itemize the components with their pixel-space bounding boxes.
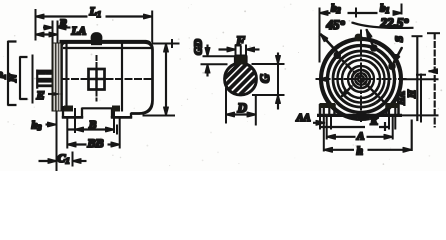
- dimension GD extension lines: [201, 56, 236, 64]
- svg-text:A: A: [356, 131, 364, 143]
- circle r14: [348, 66, 374, 92]
- left foot dark junction: [65, 106, 73, 111]
- terminal box: [89, 69, 105, 90]
- right stack: center height ext: [403, 78, 438, 80]
- key (filled): [235, 56, 247, 64]
- svg-text:F: F: [235, 34, 245, 49]
- bolt hole 67.5 deg: [389, 64, 394, 69]
- box centerline vertical dashes: [96, 56, 98, 102]
- dimension A line: [327, 136, 355, 138]
- dimension D extension lines: [226, 88, 256, 125]
- right foot hole line: [113, 109, 115, 118]
- dimension G line: [277, 53, 279, 64]
- right stack: arrow on outer line: [429, 70, 437, 72]
- svg-text:B: B: [88, 119, 96, 131]
- hub circle r5.8: [355, 73, 367, 85]
- left foot front: [320, 105, 335, 116]
- svg-text:K: K: [370, 117, 379, 128]
- svg-text:GD: GD: [193, 39, 205, 55]
- centerline vertical: [360, 30, 362, 124]
- svg-text:45°: 45°: [326, 17, 346, 32]
- right stack: baseline ext: [402, 114, 439, 116]
- left foot: [63, 107, 82, 118]
- dimension b2 b1 center tick: [355, 8, 357, 17]
- centerline horizontal: [316, 78, 406, 80]
- shaft hatching: [215, 53, 269, 112]
- svg-text:HA: HA: [398, 91, 408, 106]
- dimension L1 extension line left (shaft end): [35, 10, 37, 41]
- eyebolt on top: [91, 33, 102, 45]
- svg-text:C1: C1: [58, 151, 70, 166]
- dimension BB line: [67, 144, 86, 146]
- AA leader line: [314, 122, 325, 124]
- dimension R extension lines: [53, 21, 58, 43]
- svg-text:b1: b1: [380, 3, 390, 16]
- extension lines under feet: [67, 118, 119, 149]
- svg-text:S: S: [394, 36, 406, 42]
- end shield dark band: [52, 43, 61, 111]
- shaft: [37, 70, 52, 74]
- outer frame circle: [321, 39, 401, 119]
- circle r19: [342, 60, 380, 98]
- right foot: [112, 108, 131, 117]
- svg-text:22.5°: 22.5°: [380, 15, 410, 30]
- shaft end face: [36, 70, 38, 88]
- end shield inner ring line: [66, 44, 68, 111]
- bolt hole 22.5 deg: [371, 45, 376, 50]
- svg-text:H: H: [407, 89, 418, 99]
- shaft section center tick: [240, 47, 242, 56]
- right stack: HA tick line: [417, 74, 426, 122]
- dimension D line: [226, 114, 256, 116]
- right stack: H dim line: [416, 36, 418, 121]
- circle r28: [333, 51, 389, 107]
- circle r23.5: [338, 56, 385, 103]
- svg-text:L1: L1: [89, 4, 102, 19]
- dimension LA line: [36, 34, 58, 36]
- top knob (eyebolt end): [355, 34, 362, 41]
- third bracket line: [32, 55, 34, 103]
- svg-text:h: h: [357, 146, 363, 158]
- dimension K line: [320, 126, 388, 128]
- svg-text:E: E: [36, 88, 45, 102]
- centerline diagonal 45: [335, 53, 388, 106]
- shaft circle r3: [358, 76, 364, 82]
- scan speckle noise: [3, 3, 442, 166]
- dimension N bracket: [20, 57, 27, 99]
- dimension L1 line: [36, 16, 88, 18]
- svg-text:N: N: [7, 73, 19, 83]
- terminal box cross: [89, 69, 105, 90]
- dimension b2 b1 right tick: [401, 4, 403, 14]
- dimension F line: [219, 49, 236, 51]
- svg-text:h3: h3: [32, 120, 42, 133]
- right stack: outer h line: [434, 33, 436, 127]
- dimension h bottom line: [324, 149, 354, 151]
- right unlabeled dimension line: [165, 44, 167, 116]
- svg-text:D: D: [237, 100, 248, 115]
- dimension GD arrow lines: [207, 45, 209, 56]
- dimension B line: [68, 129, 115, 131]
- right unlabeled dimension tick: [171, 40, 173, 48]
- right unlabeled dimension bottom ext: [143, 115, 175, 117]
- shaft circle: [225, 63, 257, 95]
- dimension G extension lines: [252, 64, 284, 95]
- baseline: [318, 114, 402, 116]
- motor body inner top line: [64, 47, 151, 49]
- body centerline horizontal: [62, 78, 87, 80]
- bolt hole 45 deg upper-left: [335, 53, 340, 58]
- dimension L1 extension line right (body rear): [151, 11, 153, 42]
- dimension E line: [49, 93, 63, 95]
- svg-text:G: G: [258, 74, 272, 83]
- right unlabeled dimension top ext: [153, 43, 180, 45]
- frame underside between feet: [82, 107, 112, 109]
- svg-text:b2: b2: [331, 3, 341, 16]
- dimension F extension lines: [236, 45, 247, 56]
- frame seam line: [121, 43, 123, 112]
- hub circle r9: [352, 70, 370, 88]
- motor body outline: [62, 43, 153, 114]
- dimension R line: [44, 27, 53, 29]
- right stack: bottom dim right tick: [411, 120, 413, 151]
- end shield band white streaks: [54, 44, 59, 110]
- 45 deg leader line: [321, 34, 340, 55]
- left foot hole line: [74, 109, 76, 118]
- right foot front: [387, 105, 399, 116]
- dimension C1: [39, 160, 57, 162]
- S leader line: [394, 48, 403, 64]
- dimension h3: [46, 124, 56, 126]
- dimension b2 b1 line: [320, 12, 331, 14]
- svg-text:LA: LA: [71, 26, 87, 38]
- dimension b2 b1 extension left: [319, 8, 321, 62]
- svg-text:R: R: [59, 18, 67, 30]
- dimension P bracket: [8, 42, 16, 106]
- svg-text:AA: AA: [296, 113, 311, 124]
- small diagonal arrow lower-left: [342, 86, 353, 97]
- motor body fin deck top line: [60, 41, 151, 45]
- 22.5 deg arc leader: [352, 23, 413, 28]
- flange circle: [328, 46, 395, 113]
- extension lines below feet: [320, 116, 395, 152]
- 22.5 deg radius line: [367, 30, 375, 49]
- extension line through C1 (shaft shoulder): [56, 94, 58, 171]
